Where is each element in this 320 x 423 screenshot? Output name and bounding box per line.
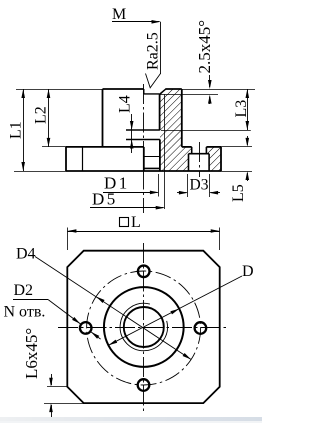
- section edge at axis: [143, 147, 145, 171]
- D5 dim line: [90, 207, 164, 209]
- D2 leader line: [48, 300, 80, 324]
- svg-text:D2: D2: [14, 282, 34, 299]
- L2 arrow up: [47, 89, 51, 98]
- bottom view horizontal axis: [58, 327, 229, 329]
- svg-text:L: L: [131, 214, 141, 231]
- L6 dim line lower tail: [51, 405, 53, 417]
- boss top edge right of chamfer: [165, 88, 182, 90]
- svg-text:L1: L1: [8, 121, 25, 139]
- counterbore D3 right wall: [208, 154, 210, 171]
- D arrow lower-left: [108, 340, 117, 346]
- thread major arc: [120, 303, 167, 350]
- svg-text:Ra2.5: Ra2.5: [145, 32, 162, 70]
- L5 dim line upper tail: [247, 136, 249, 145]
- L5 arrow down: [246, 138, 250, 147]
- hatched section: boss wall right: [160, 89, 182, 147]
- roughness symbol check: [146, 74, 161, 88]
- squareL dim line: [67, 231, 219, 233]
- boss right edge: [181, 89, 183, 147]
- D4 leader line: [35, 257, 191, 360]
- counterbore D3 left wall: [188, 154, 190, 171]
- L4 arrow up: [130, 140, 134, 149]
- D2 leader tail: [91, 332, 101, 339]
- svg-text:L3: L3: [233, 100, 250, 118]
- L3 dim line: [247, 89, 249, 130]
- D3 arrow right-pointing: [179, 191, 188, 195]
- L1 dim line: [23, 89, 25, 171]
- svg-text:M: M: [112, 6, 126, 23]
- svg-text:L2: L2: [33, 106, 50, 124]
- squareL ext left: [67, 228, 69, 251]
- bolt hole axis: [199, 142, 201, 177]
- D3 ext line right: [209, 174, 211, 197]
- L5 arrow up: [246, 171, 250, 180]
- recess step line: [144, 156, 160, 158]
- label square-L: box glyph: [120, 218, 129, 227]
- 2.5 dim line upper: [209, 75, 211, 87]
- bolt hole right: [195, 322, 207, 334]
- svg-text:L4: L4: [117, 95, 134, 113]
- bolt hole D2 left wall: [191, 147, 193, 154]
- front view axis: [143, 84, 145, 213]
- bolt hole bottom: [138, 379, 150, 391]
- ext line flange top left: [42, 146, 66, 148]
- hole step line B: [126, 139, 160, 141]
- L2 arrow down: [47, 138, 51, 147]
- 2.5 arrow up: [208, 95, 212, 104]
- thread chamfer 2.5x45: [160, 89, 166, 94]
- counterbore step: [189, 153, 210, 155]
- D3 dim tail right: [210, 192, 220, 194]
- thread minor circle: [124, 307, 164, 347]
- L6 dim line upper tail: [51, 374, 53, 385]
- square flange outline: [67, 251, 219, 403]
- boss left edge: [102, 89, 104, 147]
- thread end line A: [126, 129, 160, 131]
- hole right wall upper: [159, 94, 161, 130]
- svg-text:D: D: [242, 263, 254, 280]
- L1 arrow down: [21, 162, 25, 171]
- hatched section: flange right: [160, 147, 192, 171]
- L1 arrow up: [21, 89, 25, 98]
- D leader line: [108, 276, 242, 345]
- ext line flange bottom right: [221, 171, 252, 173]
- D2 underline: [13, 299, 48, 301]
- svg-text:L5: L5: [230, 184, 247, 202]
- D2 arrow far edge: [91, 332, 99, 339]
- bolt hole left: [80, 322, 92, 334]
- D3 ext line left: [187, 174, 189, 197]
- thread major line / D5 extension: [164, 94, 166, 209]
- ext line chamfer bottom: [161, 94, 219, 96]
- L3 arrow down: [246, 121, 250, 130]
- 2.5 dim line lower: [209, 97, 211, 104]
- L6 arrow down: [49, 378, 53, 387]
- D4 arrow lower-right: [183, 353, 192, 360]
- D3 arrow left-pointing: [209, 191, 218, 195]
- flange left edge: [65, 147, 67, 171]
- D3 dim tail left: [177, 192, 187, 194]
- ext line flange top right: [221, 146, 252, 148]
- flange top left: [66, 146, 144, 148]
- bottom view vertical axis: [143, 243, 145, 412]
- D2 arrow near edge: [72, 317, 80, 324]
- boss circle D: [104, 287, 184, 367]
- L6 ext line lower: [44, 403, 84, 405]
- chamfer bottom back edge across hole: [144, 93, 160, 95]
- bolt hole D2 right wall: [205, 147, 207, 154]
- scan edge shading bottom: [0, 417, 262, 421]
- L6 arrow up: [49, 403, 53, 412]
- L4 arrow down: [130, 121, 134, 130]
- D1 arrow: [150, 191, 159, 195]
- recess floor line: [144, 167, 160, 169]
- hole right wall lower: [159, 140, 161, 172]
- svg-text:D4: D4: [16, 246, 36, 263]
- ext line top surface left: [16, 89, 103, 91]
- svg-text:N отв.: N отв.: [4, 304, 46, 321]
- D1 ext line: [158, 174, 160, 197]
- flange top right a: [182, 146, 192, 148]
- L5 dim line lower tail: [247, 173, 249, 181]
- flange right edge: [220, 147, 222, 171]
- roughness symbol leg: [160, 22, 162, 74]
- squareL arrow right: [211, 229, 220, 233]
- squareL arrow left: [67, 229, 76, 233]
- ext line thread end right: [161, 130, 251, 132]
- L2 dim line: [48, 89, 50, 147]
- step stub at axis (hole mouth): [143, 89, 145, 94]
- L4 dim line: [131, 114, 133, 153]
- L3 arrow up: [246, 89, 250, 98]
- D1 dim line: [103, 192, 158, 194]
- svg-text:L6x45°: L6x45°: [22, 328, 41, 379]
- ext line flange bottom left: [14, 171, 66, 173]
- L6 ext line upper: [47, 386, 67, 388]
- D5 arrow: [156, 206, 165, 210]
- bolt hole top: [138, 266, 150, 278]
- flange top right b: [206, 146, 221, 148]
- squareL ext right: [219, 228, 221, 251]
- svg-text:2.5x45°: 2.5x45°: [195, 20, 214, 74]
- bolt circle D4 (centerline): [87, 271, 201, 385]
- ext line top surface right: [182, 89, 255, 91]
- svg-text:D5: D5: [92, 190, 118, 209]
- flange corner chamfer edge (left): [82, 147, 84, 171]
- 2.5 arrow down: [208, 80, 212, 89]
- D arrow upper-right: [170, 309, 179, 315]
- D4 arrow upper-left: [96, 297, 105, 304]
- M leader arrow: [152, 20, 161, 24]
- svg-text:D3: D3: [190, 177, 209, 194]
- flange bottom edge: [66, 170, 221, 172]
- boss top edge left half: [103, 88, 144, 90]
- M leader line: [112, 21, 160, 23]
